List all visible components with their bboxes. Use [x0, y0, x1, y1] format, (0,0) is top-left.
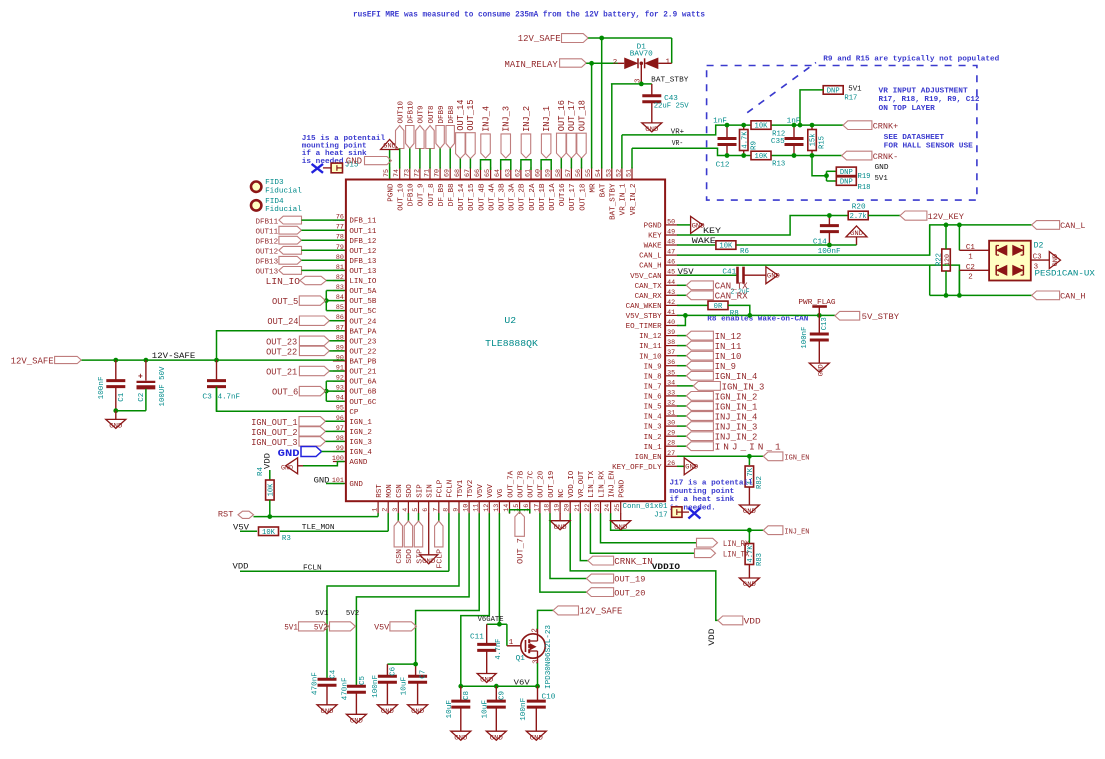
svg-text:BAT_STBY: BAT_STBY	[651, 77, 689, 85]
svg-text:VR_OUT: VR_OUT	[578, 470, 586, 498]
hier label OUT10 at pin 74	[396, 126, 404, 149]
hier label 12V_KEY	[900, 211, 927, 220]
wire bracket pins 60-59	[541, 160, 551, 170]
svg-text:CAN_WKEN: CAN_WKEN	[626, 303, 662, 311]
wire C1/C2 ground join	[116, 410, 146, 412]
svg-text:DNP: DNP	[840, 169, 853, 177]
svg-text:OUT_14: OUT_14	[458, 183, 466, 211]
svg-text:LIN_RX: LIN_RX	[598, 470, 606, 498]
pin 96 IGN_1 (left)	[333, 420, 346, 422]
ground (inverted) near C14	[846, 226, 867, 237]
svg-text:GND: GND	[349, 481, 363, 489]
svg-text:7: 7	[432, 508, 439, 512]
svg-text:IGN_4: IGN_4	[349, 449, 372, 457]
svg-text:VDD: VDD	[263, 453, 272, 469]
svg-text:OUT_4B: OUT_4B	[478, 183, 486, 211]
svg-text:12V_KEY: 12V_KEY	[928, 212, 965, 222]
svg-text:DFB_13: DFB_13	[349, 258, 376, 266]
hier label CAN_L	[1032, 221, 1060, 230]
wire pin 42 CAN_WKEN to R8	[677, 304, 708, 306]
resistor R18 DNP	[836, 177, 856, 186]
svg-text:45: 45	[667, 269, 675, 276]
resistor R19 DNP	[836, 167, 856, 176]
ground below C10	[526, 731, 546, 740]
hier label OUT9 at pin 72	[416, 126, 424, 149]
pin 75 PGND (top)	[389, 167, 391, 180]
svg-text:VR INPUT ADJUSTMENT: VR INPUT ADJUSTMENT	[879, 88, 969, 96]
pin 36 IN_9 (right)	[665, 365, 678, 367]
hier label INJ_IN_2 at pin 29	[677, 435, 686, 437]
hier label SDO at pin 4	[407, 513, 409, 521]
svg-text:10K: 10K	[267, 483, 275, 497]
pin 99 IGN_4 (left)	[333, 451, 346, 453]
svg-text:70: 70	[434, 169, 441, 177]
svg-text:C11: C11	[470, 634, 484, 642]
wire WAKE pin 48 through R6	[677, 244, 715, 246]
pin 37 IN_10 (right)	[665, 355, 678, 357]
svg-text:0R: 0R	[714, 303, 723, 311]
svg-text:60: 60	[535, 169, 542, 177]
svg-text:TLE8888QK: TLE8888QK	[485, 338, 538, 349]
svg-text:25: 25	[614, 504, 621, 512]
svg-text:4.7nF: 4.7nF	[218, 393, 240, 401]
resistor R3 10K	[259, 527, 279, 536]
hier label SIP at pin 5	[418, 513, 420, 521]
svg-text:DFB9: DFB9	[438, 106, 446, 124]
svg-text:62: 62	[514, 169, 521, 177]
svg-text:OUT_10: OUT_10	[398, 184, 406, 211]
pin 48 WAKE (right)	[665, 244, 678, 246]
svg-text:DF_B9: DF_B9	[438, 183, 446, 206]
pin 23 LIN_RX (bottom)	[600, 501, 602, 514]
pin 71 OUT_8 (top)	[429, 167, 431, 180]
hier label CRNK+	[843, 121, 872, 130]
svg-text:C1: C1	[966, 244, 975, 252]
wire pin 17 OUT_20	[540, 513, 587, 592]
pin 83 OUT_5A (left)	[333, 290, 346, 292]
svg-text:C4: C4	[329, 670, 337, 679]
svg-text:OUT_6: OUT_6	[272, 387, 298, 398]
svg-text:C7: C7	[420, 670, 428, 679]
pin 19 NC (bottom)	[559, 501, 561, 514]
pin 32 IN_5 (right)	[665, 405, 678, 407]
svg-text:46: 46	[667, 259, 675, 266]
hier label VDD	[718, 616, 743, 625]
svg-text:C13: C13	[821, 317, 829, 330]
resistor R12 10K	[751, 121, 771, 130]
hier label LIN_RX	[697, 538, 718, 547]
svg-text:BAT_PB: BAT_PB	[349, 359, 377, 367]
svg-text:MAIN_RELAY: MAIN_RELAY	[505, 60, 559, 70]
pin 95 CP (left)	[333, 410, 346, 412]
svg-text:10K: 10K	[262, 529, 276, 537]
svg-text:if a heat sink: if a heat sink	[670, 496, 735, 504]
svg-text:15k: 15k	[810, 133, 818, 146]
ground below C43	[642, 123, 662, 132]
hier label IN_9 at pin 36	[677, 365, 686, 367]
svg-text:VR_IN_1: VR_IN_1	[620, 183, 628, 215]
svg-text:52: 52	[615, 169, 622, 177]
wire pin 72	[419, 149, 421, 169]
svg-text:4: 4	[402, 508, 409, 512]
wire bracket pins 62-61	[521, 160, 531, 170]
svg-text:5V1: 5V1	[848, 86, 862, 94]
svg-text:64: 64	[494, 169, 501, 177]
wire OUT12	[302, 249, 345, 251]
resistor R83 4.7K	[748, 530, 750, 543]
wire J15 to no-connect	[323, 167, 331, 169]
capacitor C3 4.7nF	[216, 360, 218, 381]
pin 10 T5V2 (bottom)	[468, 501, 470, 514]
pin 2 MON (bottom)	[387, 501, 389, 514]
pin 98 IGN_3 (left)	[333, 440, 346, 442]
svg-text:LIN_RX: LIN_RX	[723, 540, 750, 549]
pin 30 IN_3 (right)	[665, 425, 678, 427]
svg-text:27: 27	[667, 450, 675, 457]
svg-text:PGND: PGND	[387, 183, 395, 202]
svg-text:8: 8	[442, 508, 449, 512]
ground bar pins 19/20? (NC)	[559, 513, 561, 521]
svg-text:10: 10	[463, 504, 470, 512]
pin 15 OUT_7B (bottom)	[519, 501, 521, 514]
svg-text:MON: MON	[386, 484, 394, 498]
svg-text:36: 36	[667, 359, 675, 366]
svg-text:R22: R22	[936, 253, 944, 266]
wire D1 pin3 to BAT_STBY node	[640, 63, 642, 84]
svg-text:OUT8: OUT8	[428, 106, 436, 124]
dashed leader line	[747, 63, 816, 113]
svg-text:49: 49	[667, 229, 675, 236]
svg-text:FCLP: FCLP	[437, 548, 445, 568]
ground below R82	[739, 505, 759, 514]
svg-text:GND: GND	[411, 708, 424, 715]
wire pin 23 LIN_RX	[601, 513, 697, 543]
svg-text:IN_5: IN_5	[644, 404, 662, 412]
pin 52 VR_IN_1 (top)	[621, 167, 623, 180]
svg-text:GND: GND	[743, 508, 756, 515]
svg-text:OUT_19: OUT_19	[548, 471, 556, 498]
pin 18 OUT_19 (bottom)	[549, 501, 551, 514]
ground below C6	[377, 705, 397, 714]
svg-text:IGN_3: IGN_3	[349, 439, 372, 447]
svg-text:BAT: BAT	[600, 183, 608, 197]
svg-text:C3: C3	[1033, 254, 1042, 262]
wire MAIN_RELAY to D1 pin2	[586, 62, 617, 64]
svg-text:T5V2: T5V2	[467, 480, 475, 498]
pin 64 OUT_3B (top)	[500, 167, 502, 180]
capacitor C7 10uF	[408, 675, 427, 678]
pin 76 DFB_11 (left)	[333, 219, 346, 221]
svg-text:IN_8: IN_8	[644, 373, 662, 381]
svg-text:5V2: 5V2	[314, 623, 328, 632]
pin 100 AGND (left)	[333, 461, 346, 463]
svg-text:INJ_EN: INJ_EN	[784, 528, 809, 536]
pin 68 OUT_14 (top)	[459, 167, 461, 180]
svg-text:FCLN: FCLN	[447, 480, 455, 498]
capacitor C43 22uF 25V	[651, 84, 653, 96]
svg-text:OUT_16: OUT_16	[557, 100, 567, 131]
hier label CAN_RX at pin 43	[677, 294, 686, 296]
wire pin 87 BAT_PA to 12V-SAFE rail	[217, 331, 345, 360]
pin 59 OUT_1A (top)	[550, 167, 552, 180]
junction rail C3/BAT_PA	[214, 358, 219, 363]
svg-text:GND: GND	[350, 718, 363, 725]
junction BAT_STBY	[639, 82, 644, 87]
svg-text:mounting point: mounting point	[670, 488, 735, 496]
wire OUT13	[302, 269, 345, 271]
wire R6 to C14/GND	[737, 244, 857, 246]
pin 43 CAN_RX (right)	[665, 294, 678, 296]
wire pin 70	[439, 149, 441, 169]
svg-text:SDO: SDO	[406, 484, 414, 498]
ground below C7	[408, 705, 428, 714]
ground at pin 50 PGND	[677, 224, 691, 226]
wire V5V to C6/C7	[387, 663, 415, 665]
capacitor C14 100nF	[828, 216, 830, 226]
svg-text:GND: GND	[530, 734, 543, 741]
wire pin 1 RST drop	[377, 513, 379, 516]
pin 25 PGND (bottom)	[620, 501, 622, 514]
resistor R20 2.7k	[848, 211, 868, 220]
ground below C4	[317, 705, 337, 714]
svg-text:OUT_20: OUT_20	[614, 588, 645, 598]
hier label IGN_IN_4 at pin 35	[677, 375, 686, 377]
pin 66 OUT_4B (top)	[480, 167, 482, 180]
svg-text:41: 41	[667, 309, 675, 316]
pin 93 OUT_6B (left)	[333, 390, 346, 392]
svg-text:V6V: V6V	[487, 484, 495, 498]
hier label CSN at pin 3	[397, 513, 399, 521]
svg-text:R9 and R15 are typically not p: R9 and R15 are typically not populated	[823, 56, 999, 64]
svg-text:CRNK_IN: CRNK_IN	[614, 556, 653, 567]
svg-text:R17: R17	[844, 95, 857, 103]
svg-text:10K: 10K	[755, 153, 769, 161]
svg-text:INJ_1: INJ_1	[542, 106, 552, 132]
wire D2 C2 branch	[958, 270, 960, 295]
svg-text:RST: RST	[218, 510, 234, 519]
svg-text:100nF: 100nF	[98, 376, 106, 399]
svg-text:KEY_OFF_DLY: KEY_OFF_DLY	[612, 464, 662, 472]
ground below C11	[477, 674, 496, 683]
svg-text:DFB8: DFB8	[448, 106, 456, 124]
svg-text:OUT_2A: OUT_2A	[529, 183, 537, 211]
svg-text:OUT_15: OUT_15	[466, 99, 476, 130]
svg-text:65: 65	[484, 169, 491, 177]
wire DFB11	[302, 219, 345, 221]
svg-text:OUT_4A: OUT_4A	[488, 183, 496, 211]
svg-text:OUT_6B: OUT_6B	[349, 389, 377, 397]
hier label IGN_IN_1 at pin 32	[677, 405, 686, 407]
svg-text:FOR HALL SENSOR USE: FOR HALL SENSOR USE	[884, 143, 974, 151]
svg-text:10K: 10K	[719, 243, 733, 251]
wire pin 90 BAT_PB 12V-SAFE rail	[81, 359, 344, 361]
fiducial FID3	[251, 182, 261, 192]
svg-text:DFB_12: DFB_12	[349, 238, 376, 246]
wire BAT_STBY to pin 53	[611, 83, 641, 85]
svg-text:11: 11	[473, 504, 480, 512]
wire pin 69	[449, 149, 451, 169]
svg-text:EO_TIMER: EO_TIMER	[626, 323, 663, 331]
pin 51 VR_IN_2 (top)	[631, 167, 633, 180]
wire pin 20 VDD_IO to VDD label	[570, 513, 718, 620]
wire CRNK+ row	[726, 124, 751, 126]
ground right of D2	[1049, 252, 1060, 269]
svg-text:Fiducial: Fiducial	[265, 187, 302, 195]
svg-text:12V_SAFE: 12V_SAFE	[11, 357, 54, 367]
svg-text:3: 3	[392, 508, 399, 512]
svg-text:PESD1CAN-UX: PESD1CAN-UX	[1035, 270, 1096, 278]
svg-text:18: 18	[544, 504, 551, 512]
svg-text:IN_7: IN_7	[644, 384, 662, 392]
svg-text:OUT16: OUT16	[559, 183, 567, 206]
svg-text:100nF: 100nF	[801, 327, 809, 349]
svg-text:OUT_1B: OUT_1B	[539, 183, 547, 211]
wire pin 68	[459, 159, 461, 169]
svg-text:43: 43	[667, 289, 675, 296]
svg-text:VDD: VDD	[744, 617, 761, 627]
svg-text:J17 is a potentail: J17 is a potentail	[670, 479, 754, 487]
wire Q1 drain to 12V_SAFE	[538, 610, 554, 629]
svg-text:24: 24	[604, 504, 611, 512]
svg-text:GND: GND	[383, 143, 396, 150]
svg-text:10uF: 10uF	[401, 677, 409, 696]
svg-text:DF_B8: DF_B8	[448, 183, 456, 206]
svg-text:CAN_RX: CAN_RX	[715, 291, 748, 302]
svg-text:OUT_17: OUT_17	[569, 184, 577, 211]
svg-text:68: 68	[454, 169, 461, 177]
wire CRNK- to R19/R18	[812, 156, 827, 176]
svg-text:R20: R20	[852, 204, 866, 212]
svg-text:Conn_01x01: Conn_01x01	[623, 503, 668, 511]
pin 20 VDD_IO (bottom)	[569, 501, 571, 514]
svg-text:R83: R83	[756, 553, 764, 566]
svg-text:CAN_H: CAN_H	[639, 263, 662, 271]
ground below C1/C2	[106, 419, 126, 428]
pin 8 FCLN (bottom)	[448, 501, 450, 514]
hier label IN_11 at pin 38	[677, 345, 686, 347]
wire gate to Q1	[506, 624, 508, 646]
svg-text:OUT_21: OUT_21	[266, 367, 297, 378]
pin 6 SIN (bottom)	[428, 501, 430, 514]
pin 22 LIN_TX (bottom)	[589, 501, 591, 514]
svg-text:120: 120	[944, 254, 951, 266]
svg-text:OUT_17: OUT_17	[567, 100, 577, 131]
svg-text:54: 54	[595, 169, 602, 177]
pin 77 OUT_11 (left)	[333, 229, 346, 231]
pin 81 OUT_13 (left)	[333, 269, 346, 271]
pin 46 CAN_H (right)	[665, 264, 678, 266]
svg-text:66: 66	[474, 169, 481, 177]
hier label OUT_16 at pin 58	[557, 133, 567, 158]
svg-text:R82: R82	[756, 476, 764, 489]
pin 97 IGN_2 (left)	[333, 430, 346, 432]
ground at pin 26 KEY_OFF_DLY	[677, 465, 684, 467]
svg-text:3: 3	[533, 659, 541, 664]
hier label 5V_STBY	[835, 311, 860, 320]
svg-text:OUT_24: OUT_24	[267, 316, 298, 327]
pin 56 OUT_18 (top)	[581, 167, 583, 180]
wire V5V to R3	[240, 530, 257, 532]
capacitor C9 10uF	[495, 686, 497, 701]
svg-text:1: 1	[968, 254, 973, 262]
svg-text:CRNK-: CRNK-	[873, 152, 899, 162]
pin 21 VR_OUT (bottom)	[579, 501, 581, 514]
svg-text:35: 35	[667, 369, 675, 376]
wire bracket pins 92-94	[325, 381, 327, 401]
wire pin 22 LIN_TX	[590, 513, 694, 553]
wire V6GATE rail	[487, 623, 507, 625]
pin 31 IN_4 (right)	[665, 415, 678, 417]
svg-text:22uF 25V: 22uF 25V	[654, 103, 690, 111]
pin 53 BAT_STBY (top)	[611, 167, 613, 180]
wire pin 13 VG to V6GATE	[498, 513, 500, 624]
svg-text:OUT_24: OUT_24	[349, 318, 377, 326]
diode D2 PESD1CAN-UX	[989, 241, 1031, 281]
svg-text:PGND: PGND	[644, 223, 663, 231]
pin 78 DFB_12 (left)	[333, 239, 346, 241]
wire DFB12	[302, 239, 345, 241]
junction MAIN_RELAY/MR	[589, 61, 594, 66]
svg-text:6: 6	[422, 508, 429, 512]
svg-text:34: 34	[667, 379, 675, 386]
svg-text:INJ_3: INJ_3	[502, 106, 512, 132]
svg-text:22: 22	[584, 504, 591, 512]
svg-text:CAN_TX: CAN_TX	[635, 283, 663, 291]
svg-text:2: 2	[532, 628, 540, 633]
pin 3 CSN (bottom)	[397, 501, 399, 514]
capacitor C5 470nF	[347, 685, 366, 688]
svg-text:4.7nF: 4.7nF	[495, 639, 503, 660]
pin 17 OUT_20 (bottom)	[539, 501, 541, 514]
wire TLE_MON to pin 2	[280, 530, 388, 532]
svg-text:OUT12: OUT12	[256, 249, 279, 257]
svg-text:31: 31	[667, 410, 675, 417]
svg-text:IPD30N06S2L-23: IPD30N06S2L-23	[545, 625, 553, 689]
svg-text:FID4: FID4	[265, 198, 284, 206]
svg-text:LIN_TX: LIN_TX	[723, 551, 750, 560]
svg-text:Q1: Q1	[516, 655, 526, 663]
pin 45 V5V_CAN (right)	[665, 274, 678, 276]
svg-text:1: 1	[666, 58, 671, 66]
svg-text:OUT_7C: OUT_7C	[528, 470, 536, 498]
svg-text:VR-: VR-	[672, 140, 684, 148]
svg-text:SEE DATASHEET: SEE DATASHEET	[884, 134, 945, 142]
svg-text:IGN_1: IGN_1	[349, 419, 372, 427]
ground below R83	[739, 578, 759, 587]
resistor R22 120	[942, 249, 951, 271]
svg-text:GND: GND	[109, 423, 122, 430]
svg-text:GND: GND	[767, 273, 780, 280]
svg-text:GND: GND	[818, 364, 825, 376]
ground below C9	[486, 731, 506, 740]
svg-text:IGN_2: IGN_2	[349, 429, 372, 437]
svg-text:V5V: V5V	[477, 484, 485, 498]
pin 34 IN_7 (right)	[665, 385, 678, 387]
svg-text:C8: C8	[463, 691, 471, 700]
svg-text:72: 72	[413, 169, 420, 177]
pin 74 OUT_10 (top)	[399, 167, 401, 180]
junction rail C1	[113, 358, 118, 363]
hier label IGN_EN	[763, 452, 783, 461]
svg-text:100UF 50V: 100UF 50V	[159, 366, 167, 407]
resistor R15 15k	[808, 130, 817, 151]
svg-text:SDO: SDO	[406, 548, 414, 563]
wire RST to pin 1	[254, 516, 379, 518]
svg-text:CP: CP	[349, 409, 359, 417]
svg-text:OUT_8: OUT_8	[428, 183, 436, 206]
svg-text:OUT9: OUT9	[418, 106, 426, 124]
svg-text:DFB11: DFB11	[256, 218, 279, 226]
